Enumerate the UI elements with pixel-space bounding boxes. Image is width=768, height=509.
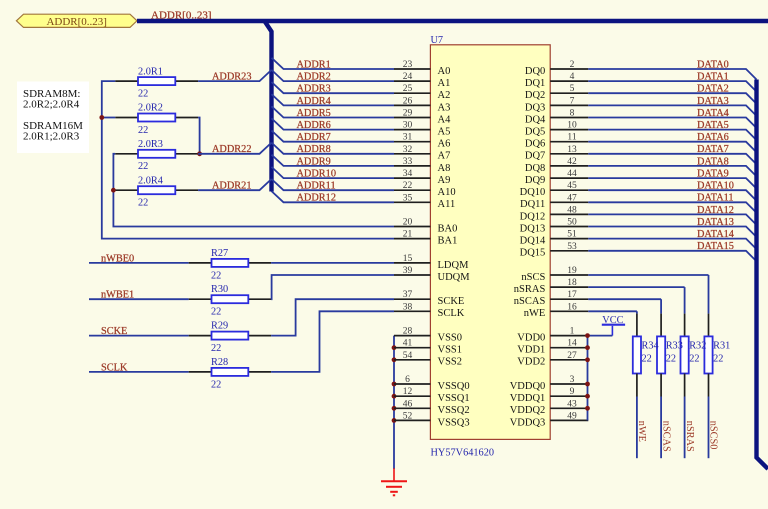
svg-text:ADDR5: ADDR5 (297, 108, 331, 119)
resistor R32 (22) (681, 336, 707, 373)
pin A8 (33) left (394, 157, 450, 174)
svg-text:DATA3: DATA3 (697, 96, 729, 107)
svg-text:26: 26 (403, 96, 413, 106)
wire R4 left stub (113, 189, 115, 191)
svg-text:13: 13 (567, 145, 577, 155)
svg-text:DQ14: DQ14 (520, 236, 546, 247)
svg-text:2.0R1;2.0R3: 2.0R1;2.0R3 (23, 131, 80, 143)
svg-text:ADDR4: ADDR4 (297, 96, 331, 107)
wire nSRAS drop lower (684, 374, 686, 459)
pin VSS1 (41) left (394, 339, 462, 356)
pin SCKE (37) left (394, 290, 464, 307)
svg-text:46: 46 (403, 399, 413, 409)
node junction R2-left / BA1 rail (99, 115, 104, 120)
svg-text:45: 45 (567, 181, 577, 191)
svg-text:4: 4 (570, 72, 575, 82)
pin A4 (29) left (394, 109, 451, 126)
svg-text:25: 25 (403, 84, 413, 94)
node junction VSS rail k27 (392, 394, 397, 399)
svg-text:22: 22 (211, 379, 221, 390)
wire net DATA10 (588, 181, 756, 201)
pin DQ6 (11) right (525, 133, 588, 150)
svg-text:DATA2: DATA2 (697, 84, 729, 95)
svg-text:DATA12: DATA12 (697, 205, 734, 216)
svg-text:SCLK: SCLK (101, 362, 128, 373)
wire net DATA7 (588, 144, 756, 164)
pin nSCAS (17) right (514, 290, 589, 307)
wire net ADDR22 (198, 143, 271, 156)
wire net ADDR1 (272, 58, 395, 71)
pin VSSQ0 (6) left (394, 375, 470, 392)
wire net DATA15 (588, 241, 756, 261)
pin UDQM (39) left (394, 266, 470, 283)
svg-text:ADDR11: ADDR11 (297, 181, 336, 192)
wire nWE drop upper (636, 311, 638, 336)
svg-text:34: 34 (403, 169, 413, 179)
svg-text:15: 15 (403, 254, 413, 264)
node junction ADDR22 (197, 151, 202, 156)
svg-text:50: 50 (567, 218, 577, 228)
pin DQ4 (8) right (525, 109, 588, 126)
pin A3 (26) left (394, 96, 450, 113)
wire net DATA0 (588, 59, 756, 79)
pin BA0 (20) left (394, 218, 457, 235)
pin DQ0 (2) right (525, 60, 588, 77)
pin DQ8 (42) right (525, 157, 588, 174)
wire nWBE0 to pin (271, 262, 394, 264)
pin DQ9 (44) right (525, 169, 588, 186)
svg-text:41: 41 (403, 339, 413, 349)
svg-text:DATA4: DATA4 (697, 108, 729, 119)
node junction VSS rail k24 (392, 357, 397, 362)
svg-text:DATA0: DATA0 (697, 59, 729, 70)
svg-text:R32: R32 (689, 341, 706, 352)
svg-text:DQ12: DQ12 (520, 211, 546, 222)
svg-text:VDD1: VDD1 (517, 345, 545, 356)
wire net ADDR7 (272, 131, 395, 144)
wire net nWBE1 (89, 290, 189, 301)
pin DQ13 (50) right (520, 218, 589, 235)
svg-text:30: 30 (403, 121, 413, 131)
node junction VDD rail k24 (585, 357, 590, 362)
svg-text:A3: A3 (438, 102, 451, 113)
wire net nWBE0 (89, 253, 189, 264)
svg-text:DATA8: DATA8 (697, 156, 729, 167)
svg-text:1: 1 (570, 327, 575, 337)
wire R3 left to BA0 rail (113, 154, 394, 227)
wire net ADDR9 (272, 155, 395, 168)
svg-text:32: 32 (403, 145, 413, 155)
pin DQ3 (7) right (525, 96, 588, 113)
wire net ADDR12 (272, 191, 395, 204)
svg-text:DATA5: DATA5 (697, 120, 729, 131)
svg-text:ADDR9: ADDR9 (297, 156, 331, 167)
wire VSS ground rail (393, 336, 395, 469)
svg-text:DQ13: DQ13 (520, 223, 546, 234)
svg-text:HY57V641620: HY57V641620 (431, 448, 495, 459)
power VCC symbol (602, 315, 625, 335)
svg-text:ADDR3: ADDR3 (297, 84, 331, 95)
svg-text:DQ8: DQ8 (525, 163, 545, 174)
wire R2 output drop to ADDR22 (198, 118, 200, 154)
svg-text:UDQM: UDQM (438, 272, 471, 283)
svg-text:22: 22 (666, 354, 676, 365)
resistor 2.0R1 (22) (115, 66, 198, 99)
svg-text:VSS2: VSS2 (438, 357, 463, 368)
svg-text:DQ2: DQ2 (525, 90, 545, 101)
resistor R29 (22) (189, 321, 271, 354)
pin VSSQ3 (52) left (394, 411, 470, 428)
wire net DATA6 (588, 132, 756, 152)
svg-text:A6: A6 (438, 139, 451, 150)
wire nSCS0 drop upper (708, 275, 710, 336)
svg-text:A5: A5 (438, 127, 451, 138)
wire nSCAS drop lower (660, 374, 662, 459)
pin DQ1 (4) right (525, 72, 588, 89)
svg-text:44: 44 (567, 169, 577, 179)
ground (381, 468, 407, 495)
svg-text:48: 48 (567, 205, 577, 215)
svg-text:DQ1: DQ1 (525, 78, 545, 89)
wire net nSCAS horizontal (588, 298, 661, 300)
svg-text:DATA10: DATA10 (697, 181, 734, 192)
svg-text:22: 22 (138, 161, 148, 172)
wire net nSCS0 horizontal (588, 274, 708, 276)
svg-text:DQ9: DQ9 (525, 175, 545, 186)
svg-text:BA0: BA0 (438, 223, 458, 234)
svg-text:22: 22 (689, 354, 699, 365)
svg-text:A1: A1 (438, 78, 451, 89)
resistor R33 (22) (657, 336, 683, 373)
svg-text:27: 27 (567, 351, 577, 361)
wire net DATA4 (588, 108, 756, 128)
IC U7 HY57V641620 body (430, 45, 550, 440)
svg-text:10: 10 (567, 121, 577, 131)
svg-text:DQ7: DQ7 (525, 151, 545, 162)
svg-text:nSCAS: nSCAS (660, 421, 671, 452)
svg-text:14: 14 (567, 339, 577, 349)
wire net DATA3 (588, 96, 756, 116)
node junction VDD rail k28 (585, 406, 590, 411)
svg-text:A7: A7 (438, 151, 451, 162)
wire net ADDR11 (272, 179, 395, 192)
svg-text:VDDQ3: VDDQ3 (510, 417, 546, 428)
pin LDQM (15) left (394, 254, 469, 271)
svg-text:VSS0: VSS0 (438, 333, 463, 344)
svg-text:2.0R3: 2.0R3 (138, 139, 163, 150)
note SDRAM resistor selection (17, 82, 89, 154)
svg-text:ADDR[0..23]: ADDR[0..23] (46, 16, 107, 28)
node junction VDD rail k26 (585, 382, 590, 387)
pin VSSQ1 (12) left (394, 387, 470, 404)
svg-text:3: 3 (570, 375, 575, 385)
svg-text:38: 38 (403, 302, 413, 312)
node junction VSS rail k26 (392, 382, 397, 387)
pin DQ12 (48) right (520, 205, 589, 222)
svg-text:DQ6: DQ6 (525, 139, 545, 150)
pin VDD0 (1) right (517, 327, 588, 344)
net label nSCS0 vertical (708, 421, 719, 450)
wire VDD rail (587, 336, 589, 421)
pin nWE (16) right (524, 302, 589, 319)
wire net DATA1 (588, 72, 756, 92)
bus ADDR horizontal (137, 19, 768, 23)
svg-text:A11: A11 (438, 199, 456, 210)
svg-text:LDQM: LDQM (438, 260, 470, 271)
node junction R4-left / BA0 rail (111, 188, 116, 193)
svg-text:22: 22 (211, 270, 221, 281)
svg-text:12: 12 (403, 387, 413, 397)
pin BA1 (21) left (394, 230, 457, 247)
svg-text:33: 33 (403, 157, 413, 167)
svg-text:DQ15: DQ15 (520, 248, 546, 259)
svg-text:22: 22 (713, 354, 723, 365)
pin VDD1 (14) right (517, 339, 588, 356)
node junction VDD rail k23 (585, 345, 590, 350)
svg-text:nSCS: nSCS (521, 272, 545, 283)
svg-text:VSS1: VSS1 (438, 345, 463, 356)
node junction VDD rail k27 (585, 394, 590, 399)
svg-text:49: 49 (567, 411, 577, 421)
svg-text:2.0R4: 2.0R4 (138, 175, 163, 186)
wire net DATA9 (588, 169, 756, 189)
pin VSSQ2 (46) left (394, 399, 470, 416)
pin A9 (34) left (394, 169, 450, 186)
svg-text:VDDQ1: VDDQ1 (510, 393, 546, 404)
pin A7 (32) left (394, 145, 450, 162)
wire net ADDR21 (198, 179, 271, 192)
net label nWE vertical (636, 421, 647, 442)
svg-text:17: 17 (567, 290, 577, 300)
svg-text:R34: R34 (642, 341, 659, 352)
svg-text:A0: A0 (438, 66, 451, 77)
wire R1 left to BA1 rail (102, 81, 394, 239)
pin DQ2 (5) right (525, 84, 588, 101)
svg-text:DATA15: DATA15 (697, 241, 734, 252)
svg-text:SCLK: SCLK (438, 308, 465, 319)
svg-text:ADDR10: ADDR10 (297, 169, 336, 180)
wire nSCAS drop upper (660, 299, 662, 336)
svg-text:19: 19 (567, 266, 577, 276)
svg-text:42: 42 (567, 157, 577, 167)
node junction VSS rail k28 (392, 406, 397, 411)
svg-text:5: 5 (570, 84, 575, 94)
pin A1 (24) left (394, 72, 450, 89)
svg-text:2.0R2: 2.0R2 (138, 103, 163, 114)
svg-text:35: 35 (403, 193, 413, 203)
resistor R30 (22) (189, 284, 271, 317)
svg-text:SCKE: SCKE (438, 296, 465, 307)
svg-text:DQ11: DQ11 (520, 199, 545, 210)
svg-text:8: 8 (570, 109, 575, 119)
svg-text:ADDR22: ADDR22 (212, 144, 251, 155)
wire nSCS0 drop lower (708, 374, 710, 459)
pin A10 (22) left (394, 181, 456, 198)
pin VDD2 (27) right (517, 351, 588, 368)
pin nSRAS (18) right (514, 278, 589, 295)
svg-text:DATA9: DATA9 (697, 169, 729, 180)
svg-text:6: 6 (405, 375, 410, 385)
wire net ADDR8 (272, 143, 395, 156)
svg-text:nSRAS: nSRAS (684, 421, 695, 452)
pin A6 (31) left (394, 133, 450, 150)
svg-text:A10: A10 (438, 187, 456, 198)
svg-text:DATA7: DATA7 (697, 144, 729, 155)
pin A11 (35) left (394, 193, 455, 210)
svg-text:2.0R2;2.0R4: 2.0R2;2.0R4 (23, 99, 80, 111)
svg-text:VDD0: VDD0 (517, 333, 545, 344)
pin A0 (23) left (394, 60, 450, 77)
svg-text:VSSQ1: VSSQ1 (438, 393, 470, 404)
svg-text:ADDR2: ADDR2 (297, 72, 331, 83)
wire net ADDR5 (272, 106, 395, 119)
svg-text:DATA14: DATA14 (697, 229, 734, 240)
svg-text:ADDR8: ADDR8 (297, 144, 331, 155)
pin DQ14 (51) right (520, 230, 589, 247)
svg-text:nSRAS: nSRAS (514, 284, 546, 295)
svg-text:DATA1: DATA1 (697, 72, 729, 83)
svg-text:22: 22 (642, 354, 652, 365)
svg-text:ADDR23: ADDR23 (212, 72, 251, 83)
pin A2 (25) left (394, 84, 450, 101)
wire net nSRAS horizontal (588, 286, 684, 288)
svg-text:7: 7 (570, 96, 575, 106)
pin VDDQ2 (43) right (510, 399, 589, 416)
svg-text:nWE: nWE (636, 421, 647, 442)
pin nSCS (19) right (521, 266, 588, 283)
node junction VSS rail k23 (392, 345, 397, 350)
svg-text:39: 39 (403, 266, 413, 276)
svg-text:37: 37 (403, 290, 413, 300)
pin DQ15 (53) right (520, 242, 589, 259)
svg-text:nSCAS: nSCAS (514, 296, 546, 307)
svg-text:22: 22 (403, 181, 413, 191)
svg-text:A4: A4 (438, 114, 452, 125)
wire net ADDR10 (272, 167, 395, 180)
svg-text:DQ5: DQ5 (525, 127, 545, 138)
svg-text:VSSQ0: VSSQ0 (438, 381, 470, 392)
svg-text:22: 22 (138, 198, 148, 209)
svg-text:22: 22 (138, 125, 148, 136)
resistor 2.0R4 (22) (115, 175, 198, 208)
svg-text:22: 22 (138, 89, 148, 100)
svg-text:31: 31 (403, 133, 413, 143)
svg-text:21: 21 (403, 230, 413, 240)
resistor 2.0R2 (22) (115, 103, 198, 136)
svg-text:A8: A8 (438, 163, 451, 174)
pin DQ7 (13) right (525, 145, 588, 162)
svg-text:VSSQ3: VSSQ3 (438, 417, 470, 428)
pin VDDQ1 (9) right (510, 387, 589, 404)
wire nWE drop lower (636, 374, 638, 459)
svg-text:R27: R27 (211, 248, 228, 259)
svg-text:DQ4: DQ4 (525, 114, 546, 125)
pin DQ5 (10) right (525, 121, 588, 138)
net label nSCAS vertical (660, 421, 671, 452)
svg-text:22: 22 (211, 343, 221, 354)
resistor R27 (22) (189, 248, 271, 281)
svg-text:ADDR21: ADDR21 (212, 181, 251, 192)
wire VCC to VDD rail (588, 335, 613, 337)
svg-text:DATA13: DATA13 (697, 217, 734, 228)
svg-text:DATA6: DATA6 (697, 132, 729, 143)
wire net ADDR3 (272, 82, 395, 95)
svg-text:54: 54 (403, 351, 413, 361)
svg-text:R29: R29 (211, 321, 228, 332)
wire R2 left stub (102, 117, 115, 119)
pin VDDQ0 (3) right (510, 375, 589, 392)
svg-text:SCKE: SCKE (101, 326, 127, 337)
wire net DATA8 (588, 156, 756, 176)
svg-text:VDDQ0: VDDQ0 (510, 381, 546, 392)
svg-text:VCC: VCC (602, 315, 623, 326)
svg-text:DQ3: DQ3 (525, 102, 545, 113)
net label ADDR[0..23] on bus (151, 10, 212, 22)
bus ADDR vertical riser (265, 21, 272, 192)
wire net DATA14 (588, 229, 756, 249)
svg-text:22: 22 (211, 307, 221, 318)
wire nWBE1 to pin (271, 275, 394, 299)
svg-text:nSCS0: nSCS0 (708, 421, 719, 450)
svg-text:43: 43 (567, 399, 577, 409)
wire net DATA11 (588, 193, 756, 213)
pin DQ10 (45) right (520, 181, 589, 198)
wire SCLK to pin (271, 311, 394, 372)
svg-text:ADDR7: ADDR7 (297, 132, 331, 143)
pin VDDQ3 (49) right (510, 411, 589, 428)
svg-text:2: 2 (570, 60, 575, 70)
wire net SCLK (89, 362, 189, 373)
svg-text:16: 16 (567, 302, 577, 312)
svg-text:9: 9 (570, 387, 575, 397)
svg-text:DQ0: DQ0 (525, 66, 545, 77)
wire net DATA5 (588, 120, 756, 140)
svg-text:VSSQ2: VSSQ2 (438, 405, 470, 416)
svg-text:ADDR6: ADDR6 (297, 120, 331, 131)
svg-text:nWBE1: nWBE1 (101, 290, 134, 301)
svg-text:47: 47 (567, 193, 577, 203)
svg-text:R31: R31 (713, 341, 730, 352)
svg-text:R30: R30 (211, 284, 228, 295)
resistor R28 (22) (189, 357, 271, 390)
svg-text:BA1: BA1 (438, 236, 458, 247)
svg-text:23: 23 (403, 60, 413, 70)
svg-text:29: 29 (403, 109, 413, 119)
svg-text:A2: A2 (438, 90, 451, 101)
resistor R31 (22) (704, 336, 730, 373)
wire net SCKE (89, 326, 189, 337)
svg-text:24: 24 (403, 72, 413, 82)
resistor 2.0R3 (22) (115, 139, 198, 172)
wire net ADDR4 (272, 94, 395, 107)
svg-text:DATA11: DATA11 (697, 193, 734, 204)
svg-text:U7: U7 (431, 35, 444, 46)
svg-text:18: 18 (567, 278, 577, 288)
svg-text:51: 51 (567, 230, 577, 240)
bus DATA vertical (757, 80, 768, 470)
wire net ADDR23 (198, 70, 271, 83)
svg-text:2.0R1: 2.0R1 (138, 66, 163, 77)
wire net DATA13 (588, 217, 756, 237)
svg-text:nWBE0: nWBE0 (101, 253, 134, 264)
svg-text:52: 52 (403, 411, 413, 421)
svg-text:53: 53 (567, 242, 577, 252)
node junction VDD rail k22 (585, 333, 590, 338)
svg-text:A9: A9 (438, 175, 451, 186)
wire net nWE horizontal (588, 310, 637, 312)
resistor R34 (22) (633, 336, 659, 373)
net label nSRAS vertical (684, 421, 695, 452)
